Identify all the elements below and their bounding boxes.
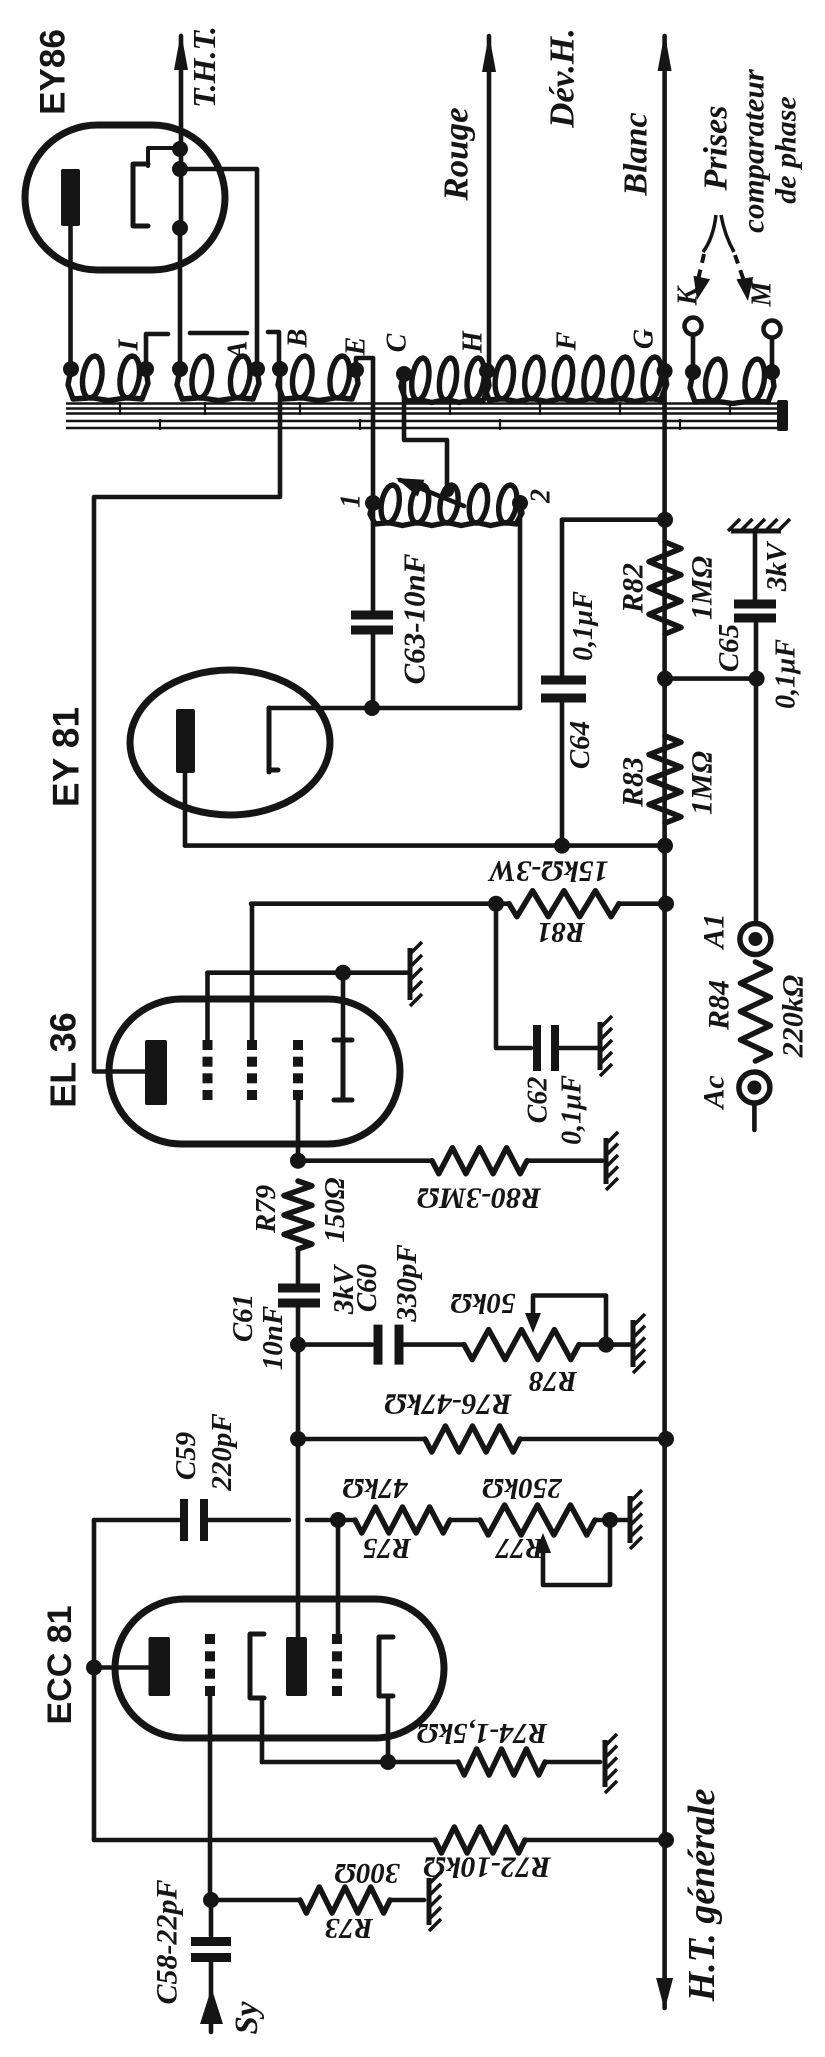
- svg-text:B: B: [283, 329, 314, 349]
- svg-text:R77: R77: [494, 1532, 545, 1564]
- svg-text:A1: A1: [698, 913, 731, 950]
- svg-text:EY86: EY86: [34, 29, 73, 115]
- svg-text:2: 2: [526, 489, 557, 504]
- svg-text:10nF: 10nF: [257, 1306, 289, 1370]
- svg-text:R81: R81: [537, 916, 586, 948]
- svg-text:R78: R78: [528, 1365, 578, 1397]
- svg-text:1MΩ: 1MΩ: [686, 751, 719, 815]
- svg-text:0,1µF: 0,1µF: [557, 1075, 588, 1145]
- svg-text:Prises: Prises: [698, 106, 735, 192]
- svg-text:H.T. générale: H.T. générale: [681, 1788, 723, 2002]
- svg-text:C65: C65: [713, 624, 745, 672]
- svg-text:F: F: [552, 331, 583, 351]
- svg-text:G: G: [629, 329, 660, 349]
- svg-text:E: E: [341, 337, 372, 357]
- svg-text:C64: C64: [564, 721, 596, 769]
- svg-text:3kV: 3kV: [761, 540, 793, 592]
- svg-text:R82: R82: [617, 563, 650, 614]
- svg-text:C63-10nF: C63-10nF: [397, 553, 432, 684]
- svg-text:0,1µF: 0,1µF: [568, 591, 599, 661]
- svg-text:220kΩ: 220kΩ: [777, 975, 810, 1058]
- svg-text:1MΩ: 1MΩ: [686, 556, 719, 620]
- svg-text:ECC 81: ECC 81: [41, 1605, 79, 1724]
- svg-text:C59: C59: [170, 1432, 202, 1480]
- svg-text:R73: R73: [325, 1912, 374, 1944]
- svg-text:M: M: [747, 280, 778, 307]
- svg-text:220pF: 220pF: [206, 1413, 238, 1491]
- svg-text:C60: C60: [351, 1264, 383, 1312]
- svg-text:R74-1,5kΩ: R74-1,5kΩ: [416, 1717, 548, 1749]
- svg-text:T.H.T.: T.H.T.: [186, 26, 222, 108]
- svg-text:0,1µF: 0,1µF: [771, 639, 802, 709]
- svg-text:C62: C62: [523, 1077, 554, 1124]
- svg-text:R75: R75: [363, 1532, 412, 1564]
- svg-text:R76-47kΩ: R76-47kΩ: [384, 1388, 512, 1421]
- svg-text:150Ω: 150Ω: [319, 1177, 351, 1243]
- svg-text:Dév.H.: Dév.H.: [543, 28, 582, 129]
- svg-text:R79: R79: [250, 1185, 282, 1234]
- svg-text:250kΩ: 250kΩ: [482, 1472, 563, 1504]
- svg-text:330pF: 330pF: [391, 1244, 423, 1322]
- svg-text:R72-10kΩ: R72-10kΩ: [423, 1851, 551, 1884]
- svg-text:300Ω: 300Ω: [334, 1857, 401, 1889]
- svg-text:EL 36: EL 36: [43, 1012, 84, 1107]
- svg-text:R83: R83: [617, 757, 650, 808]
- svg-text:1: 1: [336, 494, 367, 508]
- svg-text:Blanc: Blanc: [618, 112, 655, 196]
- svg-text:I: I: [114, 338, 145, 351]
- svg-text:C61: C61: [227, 1294, 259, 1342]
- svg-text:Rouge: Rouge: [437, 107, 476, 201]
- svg-text:H: H: [458, 330, 489, 354]
- svg-text:Sy: Sy: [229, 2001, 265, 2034]
- svg-text:EY 81: EY 81: [46, 707, 87, 807]
- svg-text:comparateur: comparateur: [736, 68, 771, 233]
- svg-text:K: K: [673, 284, 704, 306]
- svg-text:R80-3MΩ: R80-3MΩ: [417, 1182, 542, 1215]
- svg-text:Ac: Ac: [698, 1075, 731, 1110]
- svg-text:C: C: [382, 333, 413, 352]
- svg-text:A: A: [223, 341, 254, 362]
- svg-text:C58-22pF: C58-22pF: [151, 1879, 184, 2004]
- svg-text:15kΩ-3W: 15kΩ-3W: [487, 855, 608, 888]
- svg-text:50kΩ: 50kΩ: [450, 1287, 516, 1319]
- svg-text:47kΩ: 47kΩ: [342, 1472, 409, 1504]
- svg-text:R84: R84: [703, 980, 736, 1031]
- svg-text:de phase: de phase: [770, 96, 803, 204]
